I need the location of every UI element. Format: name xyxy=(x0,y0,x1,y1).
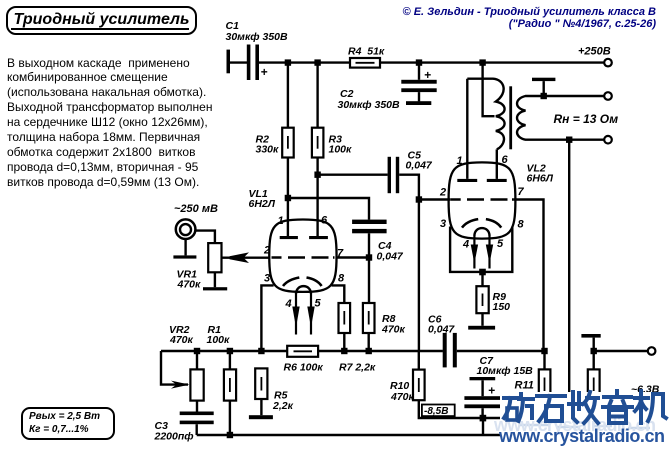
capacitor C6 xyxy=(443,333,457,368)
tube VL2 envelope xyxy=(449,162,516,238)
node secondary/ground xyxy=(541,93,547,99)
wire anode branch y198 xyxy=(288,198,369,220)
VL1 heater leg pin4 xyxy=(295,294,297,335)
VL2 heater arrow pin4 xyxy=(471,245,478,264)
wire primary bottom to VL2 pin6 xyxy=(496,149,498,179)
svg-text:5: 5 xyxy=(497,238,504,250)
svg-text:150: 150 xyxy=(493,301,511,313)
svg-text:2: 2 xyxy=(263,245,270,257)
svg-text:330к: 330к xyxy=(256,144,280,156)
node R3/C5 xyxy=(314,172,320,178)
resistor R9 xyxy=(476,286,488,313)
VL2 cathode box xyxy=(450,227,512,272)
title box xyxy=(6,6,197,35)
node R5/bus xyxy=(258,348,264,354)
svg-text:7: 7 xyxy=(518,186,525,198)
watermark ghost marks xyxy=(520,425,650,428)
svg-text:3: 3 xyxy=(264,273,270,285)
svg-text:470к: 470к xyxy=(169,334,194,346)
VL2 heater leg pin4 xyxy=(473,236,475,269)
VL2 anode plate pin6 xyxy=(487,179,507,182)
node R1/bus xyxy=(227,348,233,354)
wire bottom bus left xyxy=(161,350,287,352)
wire heater line down xyxy=(568,140,570,392)
transformer T1 core xyxy=(509,86,512,149)
node transformer tap/top xyxy=(479,59,485,65)
wire VL2 pin2 grid xyxy=(419,198,451,200)
node R7/bus xyxy=(341,348,347,354)
svg-text:www.crystalradio.cn: www.crystalradio.cn xyxy=(498,426,665,446)
description paragraph xyxy=(7,56,212,191)
transformer T1 primary xyxy=(467,79,504,150)
svg-text:2: 2 xyxy=(439,187,446,199)
svg-text:6Н6Л: 6Н6Л xyxy=(527,173,554,185)
wire VR2 top lead xyxy=(196,351,198,369)
wire R1 top lead xyxy=(229,351,231,369)
wire R9 top lead xyxy=(481,272,483,286)
svg-text:R11: R11 xyxy=(515,380,534,392)
svg-text:100к: 100к xyxy=(207,334,231,346)
svg-text:+: + xyxy=(488,384,495,398)
tube VL1 envelope xyxy=(269,220,336,292)
wire R9 bottom lead xyxy=(481,313,483,326)
credit header xyxy=(403,6,656,30)
VL1 grid dashes xyxy=(272,256,335,258)
ground C7 top xyxy=(470,377,496,396)
wire VL1 pin8 to R7 xyxy=(332,285,345,303)
node R3/top xyxy=(314,59,320,65)
potentiometer VR2 xyxy=(190,369,203,400)
svg-text:0,047: 0,047 xyxy=(428,324,455,336)
svg-text:+: + xyxy=(261,65,268,79)
wire VL1 pin7 xyxy=(337,256,369,258)
VR1 wiper arrow xyxy=(230,252,250,263)
capacitor C4 xyxy=(352,220,387,234)
wire bottom bus mid xyxy=(318,350,443,352)
title underline xyxy=(11,28,189,30)
ground secondary top xyxy=(532,78,555,96)
wire heater resistor lead xyxy=(593,351,595,369)
svg-text:100к: 100к xyxy=(329,144,353,156)
svg-text:10мкф 15В: 10мкф 15В xyxy=(477,365,534,377)
node heater ground xyxy=(591,348,597,354)
svg-text:6: 6 xyxy=(502,154,509,166)
svg-text:3: 3 xyxy=(440,218,446,230)
wire transformer center tap xyxy=(483,63,495,117)
watermark char ji xyxy=(635,391,666,423)
wire C4 to R8 xyxy=(368,233,370,303)
svg-text:-8,5В: -8,5В xyxy=(424,406,448,417)
VL2 cathode arcs xyxy=(462,219,501,228)
output parameters box xyxy=(21,407,115,440)
svg-text:470к: 470к xyxy=(381,324,406,336)
wire VR1 bottom lead xyxy=(214,272,216,287)
wire bus right of C6 xyxy=(457,350,545,352)
wire C7 bottom to rail xyxy=(482,418,484,435)
wire R3 top lead xyxy=(316,63,318,128)
label box -8.5V xyxy=(422,405,455,417)
svg-text:+: + xyxy=(424,68,431,82)
watermark char shi xyxy=(537,396,565,421)
wire top rail right of R4 xyxy=(380,61,604,63)
svg-text:470к: 470к xyxy=(390,391,415,403)
potentiometer VR1 xyxy=(208,243,221,272)
wire R7 bottom lead xyxy=(343,333,345,351)
terminal output top xyxy=(604,92,612,100)
svg-text:4: 4 xyxy=(462,239,469,251)
wire VL2 pin7 to R11 node xyxy=(513,200,543,352)
resistor R11 xyxy=(539,369,551,399)
svg-text:4: 4 xyxy=(285,298,292,310)
svg-text:~250 мВ: ~250 мВ xyxy=(174,203,218,215)
VL1 heater dome xyxy=(296,286,311,294)
svg-text:R4 51к: R4 51к xyxy=(348,46,385,58)
svg-text:+250В: +250В xyxy=(578,46,611,58)
svg-text:470к: 470к xyxy=(177,279,202,291)
watermark char kuang xyxy=(504,394,533,421)
resistor R1 xyxy=(224,369,236,400)
node R1/rail xyxy=(227,432,233,438)
wire bottom rail xyxy=(197,434,502,436)
terminal 6.3V xyxy=(648,347,656,355)
wire C3 bottom lead xyxy=(195,424,197,435)
wire bus left drop to VR2 wiper xyxy=(161,351,188,385)
input jack outer xyxy=(176,219,196,239)
node secondary bottom/heater line xyxy=(566,137,572,143)
wire R8 bottom lead xyxy=(368,333,370,351)
ground heater xyxy=(581,334,600,351)
terminal output bottom xyxy=(604,136,612,144)
ground R9 xyxy=(468,326,495,330)
VL1 heater leg pin5 xyxy=(310,294,312,335)
watermark char yin xyxy=(603,391,632,423)
svg-text:1: 1 xyxy=(278,215,284,227)
wire C5 left lead xyxy=(318,173,388,175)
resistor R3 xyxy=(312,128,324,158)
wire top rail xyxy=(259,61,350,63)
wire -8.5V bias rail xyxy=(419,400,502,418)
watermark background xyxy=(500,392,670,448)
svg-text:0,047: 0,047 xyxy=(406,160,433,172)
svg-text:30мкф 350В: 30мкф 350В xyxy=(338,99,400,111)
capacitor C3 xyxy=(180,412,214,425)
node R2/top xyxy=(285,59,291,65)
ground input jack xyxy=(173,255,196,258)
input jack inner xyxy=(180,224,191,235)
wire R11 top lead xyxy=(543,351,545,369)
resistor R8 xyxy=(363,303,375,333)
resistor R7 xyxy=(339,303,351,333)
wire heater to terminal xyxy=(594,350,648,352)
svg-text:R7 2,2к: R7 2,2к xyxy=(339,362,376,374)
VL2 grid dashes xyxy=(451,198,514,200)
svg-text:8: 8 xyxy=(518,219,525,231)
wire primary top to VL2 pin1 xyxy=(466,79,468,179)
VL2 heater dome xyxy=(474,228,489,236)
svg-text:Rн = 13 Ом: Rн = 13 Ом xyxy=(554,112,619,126)
wire R10 to bias lead xyxy=(418,351,420,370)
resistor R2 xyxy=(282,128,294,158)
VL2 heater leg pin5 xyxy=(488,236,490,269)
transformer T1 secondary xyxy=(517,96,604,140)
node R11/bus xyxy=(541,348,547,354)
VL1 cathode arcs xyxy=(283,278,322,287)
VL1 anode plate pin6 xyxy=(309,236,328,239)
svg-text:5: 5 xyxy=(315,298,322,310)
svg-text:0,047: 0,047 xyxy=(377,251,404,263)
wire C5 right lead to VL2 pin2 node xyxy=(399,175,419,200)
wire jack to VR1 xyxy=(195,231,215,244)
wire R2 to VL1 anode pin1 xyxy=(287,158,289,237)
wire R2 top lead xyxy=(287,63,289,128)
wire R1 bottom lead xyxy=(229,401,231,435)
wire R3 to VL1 anode pin6 xyxy=(316,158,318,237)
svg-text:6: 6 xyxy=(321,215,328,227)
node R8/bus xyxy=(366,348,372,354)
capacitor C5 xyxy=(388,157,400,193)
node box/R9 xyxy=(479,269,486,276)
resistor R6 xyxy=(287,346,318,357)
svg-text:6Н2Л: 6Н2Л xyxy=(249,198,276,210)
input stub bar xyxy=(227,50,231,74)
wire VL1 pin2 grid xyxy=(222,257,270,259)
resistor R4 xyxy=(350,58,380,68)
svg-text:1: 1 xyxy=(457,155,463,167)
terminal +250V xyxy=(604,59,612,67)
node C2/top xyxy=(416,59,422,65)
node C5/VL2 grid/R10 xyxy=(416,196,422,202)
wire C7 bottom lead xyxy=(481,408,483,418)
resistor heater bias xyxy=(588,369,600,399)
resistor R10 xyxy=(413,370,425,401)
capacitor C2 xyxy=(401,65,436,101)
VR2 wiper arrow xyxy=(171,381,190,389)
ground R5 xyxy=(249,415,273,419)
VL1 heater arrow pin5 xyxy=(307,307,314,328)
capacitor C7 xyxy=(464,396,501,408)
VL2 heater arrow pin5 xyxy=(486,245,493,264)
wire R5 bottom lead xyxy=(260,399,262,415)
resistor R5 xyxy=(255,368,267,399)
svg-text:R6 100к: R6 100к xyxy=(284,362,324,374)
svg-text:2200пф: 2200пф xyxy=(154,431,194,443)
VL1 anode plate pin1 xyxy=(280,236,298,239)
VL2 anode plate pin1 xyxy=(457,179,477,182)
ground VR1 xyxy=(203,287,227,290)
svg-text:7: 7 xyxy=(337,248,344,260)
ground C2 xyxy=(406,101,431,105)
wire grid node down to R10 xyxy=(418,200,420,352)
node VR2/bus xyxy=(194,348,200,354)
svg-text:2,2к: 2,2к xyxy=(272,400,294,412)
svg-text:30мкф 350В: 30мкф 350В xyxy=(226,31,288,43)
wire VR2 bottom lead xyxy=(196,401,198,412)
input jack stem xyxy=(184,239,186,256)
svg-text:8: 8 xyxy=(338,273,345,285)
VL1 heater arrow pin4 xyxy=(292,307,299,328)
watermark char shou xyxy=(569,392,598,423)
node branch/R2 line xyxy=(285,195,291,201)
wire C1 left lead xyxy=(229,61,247,63)
node C7/bias rail xyxy=(480,415,487,422)
node pin7/C4 xyxy=(366,254,372,260)
capacitor C1 xyxy=(247,45,259,81)
wire VL1 pin3 xyxy=(261,285,273,351)
